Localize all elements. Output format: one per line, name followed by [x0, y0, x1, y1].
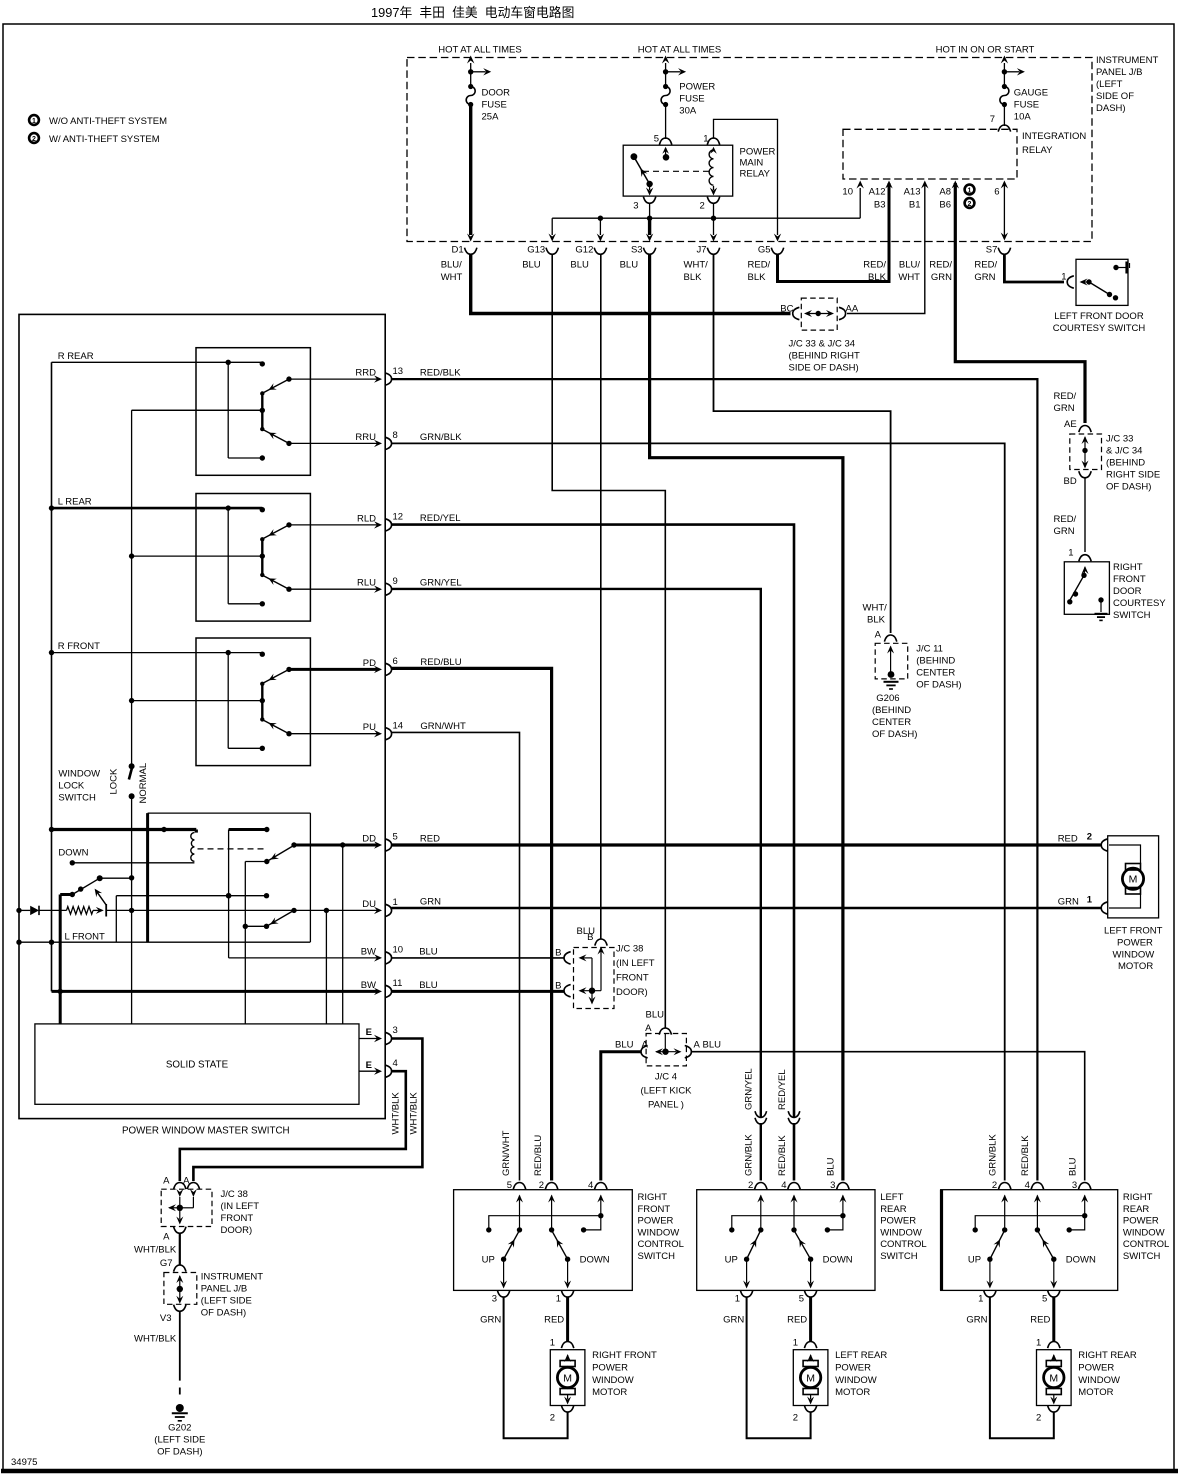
- L FRONT master switch box: [65, 813, 311, 942]
- svg-text:DOWN: DOWN: [823, 1255, 853, 1266]
- svg-text:RED/BLK: RED/BLK: [420, 368, 461, 379]
- svg-text:A: A: [875, 630, 882, 641]
- junction connector J/C 4 left kick panel: [615, 1034, 721, 1111]
- wire RLU 9 GRN/YEL: [392, 577, 761, 1180]
- svg-text:BLK: BLK: [867, 615, 886, 626]
- svg-text:1: 1: [556, 1294, 561, 1305]
- svg-text:(LEFT SIDE: (LEFT SIDE: [201, 1296, 252, 1307]
- svg-text:V3: V3: [160, 1313, 172, 1324]
- svg-text:B3: B3: [874, 200, 886, 211]
- svg-text:D1: D1: [452, 245, 464, 256]
- switch bar to solid state: [243, 862, 270, 1024]
- svg-text:AA: AA: [846, 304, 859, 315]
- wire PU 14 GRN/WHT: [392, 721, 520, 1181]
- svg-text:POWER: POWER: [1123, 1216, 1159, 1227]
- svg-text:J/C 33: J/C 33: [1106, 434, 1133, 445]
- wire WHT/BLK from connector 3: [193, 1039, 422, 1182]
- svg-text:BLU: BLU: [620, 260, 639, 271]
- svg-text:1: 1: [1068, 548, 1073, 559]
- svg-text:PU: PU: [363, 722, 376, 733]
- feed stub to DD: [226, 827, 270, 958]
- svg-text:RIGHT FRONT: RIGHT FRONT: [592, 1350, 657, 1361]
- R FRONT up contact PU: [264, 720, 404, 740]
- instrument panel J/B dashed box: [407, 55, 1158, 242]
- svg-text:INTEGRATION: INTEGRATION: [1022, 131, 1086, 142]
- svg-text:DOOR: DOOR: [1113, 586, 1142, 597]
- svg-text:RED/BLU: RED/BLU: [420, 657, 461, 668]
- power window master switch box: [19, 314, 385, 1136]
- svg-text:2: 2: [700, 201, 705, 212]
- svg-text:30A: 30A: [679, 106, 697, 117]
- svg-text:4: 4: [588, 1180, 593, 1191]
- relay switch contact: [631, 153, 653, 187]
- svg-text:25A: 25A: [482, 112, 500, 123]
- svg-text:GRN/BLK: GRN/BLK: [420, 432, 462, 443]
- wire J7 column: [710, 218, 717, 241]
- svg-text:(LEFT: (LEFT: [1096, 79, 1123, 90]
- diagram number 34975: [11, 1457, 37, 1468]
- wire A8 B6 RED/GRN: [952, 181, 1085, 424]
- svg-text:SIDE OF DASH): SIDE OF DASH): [789, 363, 859, 374]
- wire DU 1 GRN to left front motor: [392, 895, 1108, 915]
- L REAR up contact RLU: [264, 576, 398, 596]
- svg-text:MOTOR: MOTOR: [592, 1387, 627, 1398]
- svg-text:10: 10: [393, 945, 404, 956]
- svg-text:HOT AT ALL TIMES: HOT AT ALL TIMES: [438, 45, 521, 56]
- wire WHT/BLK to ground G202: [134, 1311, 180, 1395]
- wire S7 RED/GRN to left front door courtesy switch: [1004, 255, 1073, 289]
- wire S3 BLU: [650, 255, 843, 1181]
- svg-text:OF DASH): OF DASH): [872, 729, 917, 740]
- svg-text:COURTESY: COURTESY: [1113, 598, 1166, 609]
- integration relay pin 6 wire to S7: [994, 181, 1008, 241]
- svg-text:FUSE: FUSE: [482, 100, 507, 111]
- svg-text:6: 6: [994, 187, 999, 198]
- svg-text:UP: UP: [482, 1255, 495, 1266]
- svg-text:GRN/WHT: GRN/WHT: [501, 1130, 512, 1176]
- wire RLD 12 RED/YEL: [392, 513, 795, 1181]
- svg-text:WINDOW: WINDOW: [1123, 1227, 1165, 1238]
- R FRONT down contact PD: [264, 656, 398, 683]
- svg-text:RED/YEL: RED/YEL: [777, 1069, 788, 1110]
- svg-text:RIGHT: RIGHT: [638, 1192, 668, 1203]
- svg-text:G202: G202: [168, 1423, 191, 1434]
- master switch feed wire: [49, 362, 54, 991]
- relay pin 3: [633, 184, 656, 212]
- relay pin 5: [654, 105, 672, 161]
- svg-text:CONTROL: CONTROL: [638, 1239, 684, 1250]
- right front power window motor M: [550, 1338, 657, 1424]
- svg-text:BLU: BLU: [419, 946, 438, 957]
- svg-text:POWER: POWER: [835, 1362, 871, 1373]
- svg-text:POWER: POWER: [1117, 937, 1153, 948]
- svg-text:BLK: BLK: [684, 272, 703, 283]
- svg-text:M: M: [1049, 1372, 1058, 1384]
- svg-text:1: 1: [793, 1338, 798, 1349]
- svg-text:SWITCH: SWITCH: [1113, 610, 1151, 621]
- wire BLU J/C 4 to right rear switch: [691, 1052, 1085, 1181]
- HOT IN ON OR START feed / gauge fuse 10A: [936, 45, 1048, 123]
- wire bottom return line: [16, 940, 310, 945]
- svg-text:GRN: GRN: [723, 1315, 744, 1326]
- svg-text:WHT/BLK: WHT/BLK: [409, 1092, 420, 1135]
- svg-text:BLU: BLU: [646, 1010, 665, 1021]
- svg-text:& J/C 34: & J/C 34: [1106, 446, 1142, 457]
- svg-text:9: 9: [393, 576, 398, 587]
- title text: [371, 5, 574, 20]
- svg-text:W/O ANTI-THEFT SYSTEM: W/O ANTI-THEFT SYSTEM: [49, 116, 167, 127]
- svg-text:GAUGE: GAUGE: [1014, 88, 1048, 99]
- right rear power window control switch: [941, 1180, 1118, 1290]
- svg-text:GRN/BLK: GRN/BLK: [988, 1134, 999, 1176]
- legend circle 2 W/ ANTI-THEFT SYSTEM: [29, 133, 160, 145]
- svg-text:G206: G206: [876, 693, 899, 704]
- svg-text:WINDOW: WINDOW: [638, 1227, 680, 1238]
- svg-text:GRN: GRN: [1058, 897, 1079, 908]
- svg-text:4: 4: [1025, 1180, 1030, 1191]
- svg-text:REAR: REAR: [880, 1204, 907, 1215]
- svg-text:1: 1: [393, 897, 398, 908]
- svg-text:B: B: [587, 932, 593, 943]
- svg-text:PANEL J/B: PANEL J/B: [1096, 67, 1142, 78]
- HOT AT ALL TIMES feed / door fuse 25A: [438, 45, 521, 123]
- svg-text:(LEFT SIDE: (LEFT SIDE: [154, 1435, 205, 1446]
- svg-text:POWER: POWER: [740, 147, 776, 158]
- svg-text:MOTOR: MOTOR: [1118, 961, 1153, 972]
- svg-text:RED: RED: [420, 834, 440, 845]
- svg-text:E: E: [366, 1060, 372, 1071]
- svg-text:RED: RED: [544, 1315, 564, 1326]
- svg-text:SWITCH: SWITCH: [1123, 1251, 1161, 1262]
- svg-text:DASH): DASH): [1096, 103, 1126, 114]
- svg-text:2: 2: [539, 1180, 544, 1191]
- svg-text:RED/BLK: RED/BLK: [1020, 1135, 1031, 1176]
- svg-text:GRN: GRN: [931, 272, 952, 283]
- svg-text:M: M: [806, 1372, 815, 1384]
- junction connector J/C 38 lower in left front door: [161, 1176, 259, 1243]
- svg-text:MAIN: MAIN: [740, 158, 764, 169]
- svg-text:J/C 38: J/C 38: [221, 1189, 248, 1200]
- svg-text:B6: B6: [939, 200, 951, 211]
- svg-text:LOCK: LOCK: [109, 768, 120, 795]
- svg-text:AE: AE: [1064, 419, 1077, 430]
- svg-text:FUSE: FUSE: [679, 94, 704, 105]
- middle contact line: [116, 893, 269, 942]
- svg-text:1997年 丰田 佳美 电动车窗电路图: 1997年 丰田 佳美 电动车窗电路图: [371, 5, 574, 20]
- svg-text:REAR: REAR: [1123, 1204, 1150, 1215]
- junction connector J/C 33 & J/C 34 (BC-AA): [780, 298, 860, 373]
- wire DD 5 RED: [294, 832, 398, 1024]
- svg-text:DOOR): DOOR): [221, 1225, 253, 1236]
- svg-text:G7: G7: [160, 1258, 173, 1269]
- svg-text:CONTROL: CONTROL: [1123, 1239, 1169, 1250]
- svg-text:WINDOW: WINDOW: [1078, 1375, 1120, 1386]
- svg-text:M: M: [563, 1372, 572, 1384]
- wire to integration relay pin 10: [857, 181, 864, 219]
- right rear power window motor M: [1036, 1338, 1137, 1424]
- svg-text:INSTRUMENT: INSTRUMENT: [201, 1272, 263, 1283]
- svg-text:(IN LEFT: (IN LEFT: [221, 1201, 260, 1212]
- svg-text:WINDOW: WINDOW: [58, 769, 100, 780]
- svg-text:34975: 34975: [11, 1457, 37, 1468]
- svg-text:CONTROL: CONTROL: [880, 1239, 926, 1250]
- wire BLU J/C 4 to right front switch: [601, 1052, 642, 1181]
- svg-text:3: 3: [830, 1180, 835, 1191]
- svg-text:GRN: GRN: [1054, 403, 1075, 414]
- power distribution bus below relay: [552, 203, 860, 221]
- svg-text:CENTER: CENTER: [916, 668, 955, 679]
- connector row below junction block: [441, 245, 477, 283]
- svg-text:2: 2: [968, 201, 972, 208]
- svg-text:SIDE OF: SIDE OF: [1096, 91, 1134, 102]
- output wires of right front switch: [480, 1290, 574, 1438]
- svg-text:10A: 10A: [1014, 112, 1032, 123]
- svg-text:DU: DU: [362, 899, 376, 910]
- svg-text:WINDOW: WINDOW: [592, 1375, 634, 1386]
- svg-text:BLK: BLK: [748, 272, 767, 283]
- resistor on DU line: [67, 889, 107, 917]
- wire RRU 8 GRN/BLK: [392, 432, 1005, 1181]
- svg-text:SOLID STATE: SOLID STATE: [166, 1060, 229, 1071]
- svg-text:2: 2: [1036, 1413, 1041, 1424]
- svg-text:RLU: RLU: [357, 578, 376, 589]
- R REAR down contact RRD: [264, 366, 404, 393]
- svg-text:(BEHIND RIGHT: (BEHIND RIGHT: [789, 351, 860, 362]
- svg-text:3: 3: [633, 201, 638, 212]
- svg-text:RED/: RED/: [1054, 514, 1077, 525]
- svg-text:POWER: POWER: [880, 1216, 916, 1227]
- wire DU 1 GRN: [324, 897, 398, 1024]
- svg-text:OF DASH): OF DASH): [157, 1447, 202, 1458]
- wire BW 11 BLU: [52, 978, 403, 998]
- ground G202: [154, 1404, 205, 1458]
- svg-text:G13: G13: [527, 245, 545, 256]
- svg-text:5: 5: [393, 832, 398, 843]
- svg-text:FRONT: FRONT: [221, 1213, 254, 1224]
- integration relay dashed box: [843, 129, 1086, 179]
- wire labels at right front switch inputs: [501, 1130, 544, 1176]
- svg-text:L FRONT: L FRONT: [65, 932, 105, 943]
- svg-text:UP: UP: [725, 1255, 738, 1266]
- wire to G12 column: [597, 218, 604, 241]
- svg-text:POWER WINDOW MASTER SWITCH: POWER WINDOW MASTER SWITCH: [122, 1126, 290, 1137]
- svg-text:HOT IN ON OR START: HOT IN ON OR START: [936, 45, 1035, 56]
- svg-text:SWITCH: SWITCH: [58, 793, 96, 804]
- svg-text:WHT/BLK: WHT/BLK: [391, 1092, 402, 1135]
- wire D1 BLU/WHT to J/C 33: [471, 255, 791, 314]
- svg-text:J/C 11: J/C 11: [916, 644, 943, 655]
- wire WHT/BLK from connector 4: [180, 1071, 406, 1181]
- wire BLU 11 to J/C 38: [392, 980, 565, 992]
- svg-text:WINDOW: WINDOW: [835, 1375, 877, 1386]
- svg-text:4: 4: [393, 1058, 398, 1069]
- svg-text:FRONT: FRONT: [1113, 574, 1146, 585]
- svg-text:J/C 33 & J/C 34: J/C 33 & J/C 34: [789, 339, 856, 350]
- svg-text:RED/: RED/: [748, 260, 771, 271]
- svg-text:(BEHIND: (BEHIND: [1106, 458, 1145, 469]
- integration relay pin labels: [842, 187, 951, 211]
- left front door courtesy switch: [1053, 259, 1146, 334]
- svg-text:BLU: BLU: [522, 260, 541, 271]
- svg-text:MOTOR: MOTOR: [835, 1387, 870, 1398]
- DD lever: [245, 842, 296, 864]
- svg-text:(BEHIND: (BEHIND: [872, 705, 911, 716]
- junction connector J/C 11 and ground G206: [863, 603, 962, 741]
- svg-text:FUSE: FUSE: [1014, 100, 1039, 111]
- svg-text:DOWN: DOWN: [1066, 1255, 1096, 1266]
- svg-text:WHT/BLK: WHT/BLK: [134, 1334, 177, 1345]
- inline connector on RED/YEL wire: [777, 1069, 800, 1176]
- auto-down mechanical dashed link: [198, 848, 265, 850]
- svg-text:OF DASH): OF DASH): [1106, 482, 1151, 493]
- svg-text:7: 7: [990, 114, 995, 125]
- svg-text:BLU: BLU: [570, 260, 589, 271]
- svg-text:FRONT: FRONT: [638, 1204, 671, 1215]
- svg-text:FRONT: FRONT: [616, 973, 649, 984]
- right front door courtesy switch: [1064, 562, 1166, 621]
- svg-text:2: 2: [748, 1180, 753, 1191]
- svg-text:BLU: BLU: [703, 1040, 722, 1051]
- svg-text:OF DASH): OF DASH): [916, 680, 961, 691]
- R REAR up contact RRU: [264, 430, 398, 450]
- svg-text:RED: RED: [787, 1315, 807, 1326]
- svg-text:RIGHT SIDE: RIGHT SIDE: [1106, 470, 1160, 481]
- wire DD 5 RED to left front motor: [392, 832, 1108, 852]
- svg-text:RED/: RED/: [863, 260, 886, 271]
- svg-text:WHT/BLK: WHT/BLK: [134, 1245, 177, 1256]
- svg-text:BW: BW: [361, 980, 376, 991]
- svg-text:RIGHT REAR: RIGHT REAR: [1078, 1350, 1137, 1361]
- svg-text:(BEHIND: (BEHIND: [916, 656, 955, 667]
- svg-text:RED/: RED/: [1054, 391, 1077, 402]
- svg-text:INSTRUMENT: INSTRUMENT: [1096, 55, 1158, 66]
- svg-text:PANEL ): PANEL ): [648, 1100, 684, 1111]
- svg-text:13: 13: [393, 366, 404, 377]
- svg-text:1: 1: [968, 188, 972, 195]
- svg-text:R REAR: R REAR: [58, 351, 94, 362]
- auto-down relay coil: [191, 830, 197, 862]
- wire DU line to switch: [106, 909, 377, 911]
- svg-text:LEFT REAR: LEFT REAR: [835, 1350, 887, 1361]
- wire A12 B3 RED/BLK from G5: [778, 181, 893, 282]
- relay mechanical dashed link: [643, 170, 709, 172]
- svg-text:RLD: RLD: [357, 513, 376, 524]
- svg-text:WHT/: WHT/: [684, 260, 709, 271]
- svg-text:RIGHT: RIGHT: [1113, 562, 1143, 573]
- svg-text:1: 1: [978, 1294, 983, 1305]
- svg-text:J/C 4: J/C 4: [655, 1072, 677, 1083]
- L FRONT feed bus: [52, 827, 197, 832]
- auto-down relay contact lever: [70, 875, 132, 897]
- wire BW 10 BLU: [229, 945, 403, 965]
- svg-text:BLU/: BLU/: [441, 260, 462, 271]
- svg-text:WHT: WHT: [441, 272, 463, 283]
- svg-text:A: A: [163, 1232, 170, 1243]
- svg-text:GRN/YEL: GRN/YEL: [420, 577, 462, 588]
- svg-text:B: B: [555, 948, 561, 959]
- wire from relay pin 1 to G5 column: [714, 119, 782, 241]
- switch unit L REAR: [52, 494, 311, 622]
- svg-text:DOWN: DOWN: [580, 1255, 610, 1266]
- svg-text:OF DASH): OF DASH): [201, 1308, 246, 1319]
- svg-text:POWER: POWER: [638, 1216, 674, 1227]
- thick wire lever to BW11 feed: [58, 895, 73, 1024]
- svg-text:A: A: [645, 1023, 652, 1034]
- svg-text:NORMAL: NORMAL: [138, 763, 149, 804]
- svg-text:(IN LEFT: (IN LEFT: [616, 958, 655, 969]
- HOT AT ALL TIMES feed / power fuse 30A: [638, 45, 721, 117]
- relay pin 1: [703, 134, 719, 154]
- left rear switch label: [880, 1192, 926, 1262]
- svg-text:A12: A12: [869, 187, 886, 198]
- svg-text:2: 2: [32, 136, 36, 143]
- output wires of left rear switch: [723, 1290, 817, 1438]
- svg-text:RED: RED: [1030, 1315, 1050, 1326]
- svg-text:3: 3: [1072, 1180, 1077, 1191]
- svg-text:COURTESY SWITCH: COURTESY SWITCH: [1053, 323, 1146, 334]
- wire PD 6 RED/BLU: [392, 657, 552, 1181]
- svg-text:A8: A8: [939, 187, 951, 198]
- wire J7 WHT/BLK: [714, 255, 891, 634]
- svg-text:5: 5: [507, 1180, 512, 1191]
- svg-text:1: 1: [735, 1294, 740, 1305]
- svg-text:BLU: BLU: [826, 1157, 837, 1176]
- junction connector J/C 33 & J/C 34 (AE-BD): [1054, 391, 1161, 493]
- svg-text:S7: S7: [986, 245, 998, 256]
- right front switch label: [638, 1192, 684, 1262]
- DU lever: [267, 908, 297, 927]
- wire A13 B1 BLU/WHT to J/C 33: [847, 181, 929, 314]
- integration relay pin 7 from gauge fuse: [990, 105, 1011, 132]
- switch unit R FRONT: [52, 638, 311, 766]
- svg-text:POWER: POWER: [1078, 1362, 1114, 1373]
- svg-text:GRN: GRN: [480, 1315, 501, 1326]
- wire RRD 13 RED/BLK: [392, 368, 1038, 1181]
- svg-text:1: 1: [32, 118, 36, 125]
- window lock switch: [58, 763, 149, 804]
- wire to G13 column: [549, 218, 556, 241]
- svg-text:(LEFT KICK: (LEFT KICK: [640, 1086, 692, 1097]
- svg-text:2: 2: [793, 1413, 798, 1424]
- svg-text:1: 1: [1087, 895, 1093, 906]
- svg-text:10: 10: [842, 187, 853, 198]
- instrument panel J/B lower: [160, 1272, 263, 1325]
- svg-text:GRN/BLK: GRN/BLK: [744, 1134, 755, 1176]
- svg-text:4: 4: [781, 1180, 786, 1191]
- left front power window motor M1: [1104, 836, 1163, 972]
- svg-text:DOWN: DOWN: [58, 848, 88, 859]
- solid state module: [35, 1024, 359, 1104]
- DOWN contact wire: [58, 848, 194, 866]
- svg-text:5: 5: [799, 1294, 804, 1305]
- svg-text:RED/YEL: RED/YEL: [420, 513, 461, 524]
- svg-text:LEFT: LEFT: [880, 1192, 903, 1203]
- switch unit R REAR: [52, 348, 311, 476]
- relay pin 2: [700, 186, 720, 212]
- svg-text:3: 3: [393, 1025, 398, 1036]
- output wires of right rear switch: [966, 1290, 1060, 1438]
- inline connector on GRN/YEL wire: [744, 1068, 767, 1176]
- svg-text:RRD: RRD: [355, 368, 376, 379]
- svg-text:UP: UP: [968, 1255, 981, 1266]
- solid state output E 3: [359, 1025, 398, 1045]
- svg-text:GRN/WHT: GRN/WHT: [420, 721, 466, 732]
- svg-text:A: A: [694, 1040, 701, 1051]
- svg-text:J7: J7: [696, 245, 706, 256]
- wire S3 column: [646, 218, 653, 241]
- svg-text:BLU: BLU: [615, 1040, 634, 1051]
- L REAR down contact RLD: [264, 512, 404, 539]
